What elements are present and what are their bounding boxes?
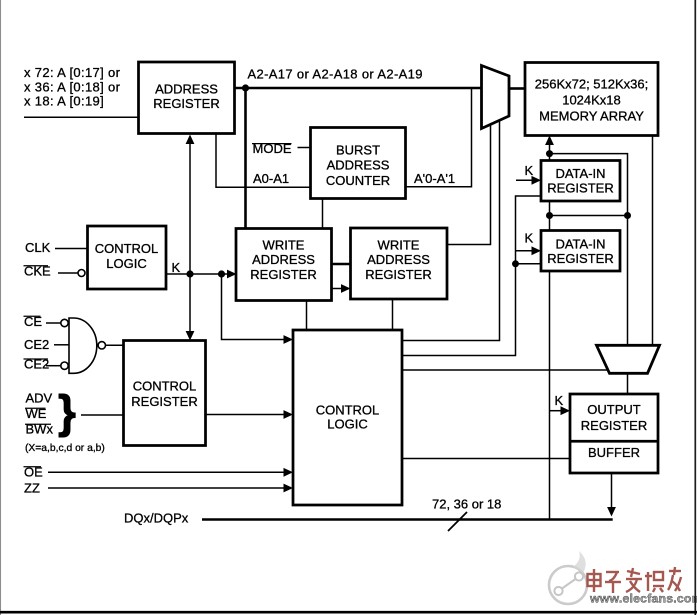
svg-text:CONTROL: CONTROL: [316, 402, 380, 417]
svg-text:WRITE: WRITE: [378, 237, 420, 252]
svg-text:x 18: A [0:19]: x 18: A [0:19]: [24, 94, 104, 109]
svg-text:x 36: A [0:18] or: x 36: A [0:18] or: [24, 79, 121, 94]
svg-text:72, 36 or 18: 72, 36 or 18: [432, 497, 501, 512]
svg-text:x 72: A [0:17] or: x 72: A [0:17] or: [24, 65, 121, 80]
svg-text:ADV: ADV: [26, 391, 53, 406]
svg-text:DATA-IN: DATA-IN: [555, 166, 605, 181]
svg-text:ADDRESS: ADDRESS: [327, 158, 390, 173]
svg-text:K: K: [555, 393, 564, 408]
svg-text:REGISTER: REGISTER: [250, 267, 316, 282]
svg-text:K: K: [172, 260, 181, 275]
svg-text:REGISTER: REGISTER: [365, 267, 431, 282]
svg-text:MEMORY ARRAY: MEMORY ARRAY: [539, 108, 644, 123]
svg-text:ZZ: ZZ: [24, 480, 40, 495]
svg-text:REGISTER: REGISTER: [581, 418, 647, 433]
svg-text:WRITE: WRITE: [263, 237, 305, 252]
svg-text:www.elecfans.com: www.elecfans.com: [589, 592, 697, 606]
svg-text:REGISTER: REGISTER: [547, 181, 613, 196]
svg-text:ADDRESS: ADDRESS: [252, 252, 315, 267]
svg-text:1024Kx18: 1024Kx18: [562, 92, 621, 107]
svg-text:CONTROL: CONTROL: [133, 379, 197, 394]
svg-text:K: K: [525, 231, 534, 246]
svg-text:CE2: CE2: [24, 337, 49, 352]
svg-text:REGISTER: REGISTER: [547, 251, 613, 266]
svg-text:CONTROL: CONTROL: [95, 241, 159, 256]
svg-text:BUFFER: BUFFER: [588, 445, 640, 460]
svg-text:DATA-IN: DATA-IN: [555, 236, 605, 251]
svg-text:A0-A1: A0-A1: [253, 171, 289, 186]
svg-text:REGISTER: REGISTER: [131, 394, 197, 409]
svg-text:}: }: [58, 386, 76, 438]
svg-text:ADDRESS: ADDRESS: [367, 252, 430, 267]
svg-text:(X=a,b,c,d or a,b): (X=a,b,c,d or a,b): [25, 443, 105, 454]
svg-text:A'0-A'1: A'0-A'1: [414, 171, 455, 186]
svg-text:256Kx72; 512Kx36;: 256Kx72; 512Kx36;: [535, 77, 648, 92]
svg-text:ADDRESS: ADDRESS: [155, 82, 218, 97]
svg-text:K: K: [525, 163, 534, 178]
svg-text:OUTPUT: OUTPUT: [587, 402, 641, 417]
svg-text:CLK: CLK: [25, 240, 51, 255]
svg-text:BURST: BURST: [336, 143, 380, 158]
svg-text:LOGIC: LOGIC: [106, 256, 146, 271]
svg-text:LOGIC: LOGIC: [327, 417, 367, 432]
svg-text:DQx/DQPx: DQx/DQPx: [124, 511, 189, 526]
svg-text:COUNTER: COUNTER: [326, 173, 390, 188]
svg-text:REGISTER: REGISTER: [153, 96, 219, 111]
svg-text:A2-A17 or A2-A18 or A2-A19: A2-A17 or A2-A18 or A2-A19: [248, 67, 423, 82]
